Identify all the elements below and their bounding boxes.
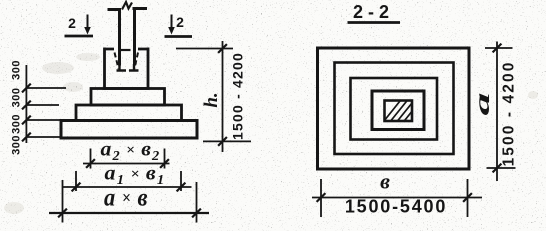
chain extension line 3 <box>26 119 76 121</box>
column break cap right <box>133 7 148 10</box>
bottom dim extension right <box>467 179 469 217</box>
label a1 x b1 <box>105 161 166 188</box>
dim a2xb2 tick left <box>86 159 95 168</box>
chain tick 3 <box>22 116 31 125</box>
socket bottom left foot <box>117 64 127 71</box>
section mark left arrow <box>87 15 89 29</box>
hatched column rect <box>380 96 427 131</box>
socket top dashed edge <box>120 49 131 51</box>
title underline <box>348 21 401 24</box>
h dimension tick top <box>218 44 227 53</box>
h dimension vertical line <box>222 41 224 152</box>
chain tick 4 <box>22 133 31 142</box>
bottom dim extension left <box>320 179 322 217</box>
section mark left underline <box>65 35 94 38</box>
bottom slab rect <box>61 121 197 139</box>
scan noise patches <box>4 53 538 214</box>
label a2 x b2 <box>101 137 161 164</box>
h dimension bottom extension line <box>203 140 251 142</box>
chain extension line 4 <box>26 136 61 138</box>
dim a1xb1 tick left <box>72 183 81 192</box>
bottom dim tick right <box>463 193 472 202</box>
dim axb extension left <box>62 180 64 223</box>
socket left slant dashed <box>115 53 119 69</box>
scan grain filter <box>0 0 1 1</box>
bottom dim tick left <box>317 193 326 202</box>
dim axb tick left <box>58 209 67 218</box>
right dim top extension <box>485 47 513 49</box>
dim a2xb2 extension right <box>164 149 166 169</box>
bottom dim line <box>312 197 482 199</box>
right dim tick top <box>493 44 502 53</box>
label a x b <box>104 184 148 211</box>
chain tick 1 <box>22 84 31 93</box>
chain tick 2 <box>22 101 31 110</box>
right dim tick bottom <box>493 164 502 173</box>
chain extension line 2 <box>26 104 59 106</box>
column break zigzag <box>122 2 132 10</box>
right dim bottom extension <box>487 167 516 169</box>
dim a2xb2 line <box>83 163 170 165</box>
dim axb extension right <box>196 182 198 223</box>
dim a2xb2 tick right <box>160 159 169 168</box>
right dim vertical line <box>496 42 498 182</box>
left dimension chain vertical line <box>25 65 27 143</box>
dim a1xb1 tick right <box>177 183 186 192</box>
dim axb line <box>49 212 209 214</box>
column right line <box>133 8 136 66</box>
dim a1xb1 line <box>62 186 192 188</box>
plan rect 3 <box>351 78 438 140</box>
dim axb tick right <box>192 209 201 218</box>
plan rect 4 <box>372 91 424 130</box>
section mark right arrow <box>171 15 173 29</box>
column break cap left <box>108 8 122 11</box>
dim a1xb1 extension right <box>180 171 182 191</box>
chain extension line 1 <box>26 87 66 89</box>
step 2 rect <box>91 89 165 106</box>
step 1 rect <box>76 105 182 121</box>
dim a1xb1 extension left <box>75 171 77 191</box>
plan rect 2 <box>335 63 454 155</box>
h dimension tick bottom <box>218 137 227 146</box>
socket bottom right foot <box>129 64 139 71</box>
socket right slant dashed <box>135 53 139 69</box>
pedestal block (podkolonnik) <box>105 48 149 89</box>
section mark right underline <box>165 35 193 38</box>
h dimension top extension line <box>176 48 233 50</box>
dim a2xb2 extension left <box>90 149 92 169</box>
plan outer rect <box>318 48 470 169</box>
column left line <box>118 9 121 66</box>
